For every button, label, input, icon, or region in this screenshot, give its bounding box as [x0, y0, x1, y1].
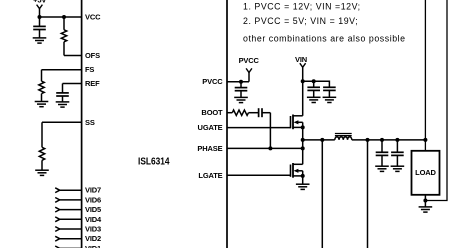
svg-text:UGATE: UGATE	[198, 123, 223, 132]
wire FS pin	[42, 69, 82, 71]
wire boot cap down to phase	[269, 113, 271, 149]
svg-text:VIN: VIN	[295, 55, 307, 64]
svg-text:PVCC: PVCC	[239, 56, 260, 65]
wire VID4	[60, 218, 82, 220]
node junction vout-load	[423, 138, 427, 142]
ground below R3	[35, 170, 49, 175]
ground below C7	[391, 166, 405, 171]
svg-text:BOOT: BOOT	[201, 108, 223, 117]
node junction VIN-C4	[312, 79, 316, 83]
transistor Q1 upper MOSFET	[291, 115, 303, 130]
capacitor C4	[307, 87, 320, 90]
svg-text:VID3: VID3	[85, 225, 101, 234]
wire SS pin	[42, 121, 82, 123]
svg-text:PHASE: PHASE	[197, 144, 222, 153]
wire output rail	[352, 139, 426, 141]
svg-text:VID7: VID7	[85, 186, 101, 195]
capacitor C3 lower lead	[240, 91, 242, 98]
node junction phase sense	[320, 138, 324, 142]
node junction PVCC-C3	[239, 80, 243, 84]
svg-text:ISL6314: ISL6314	[138, 156, 170, 167]
wire sense line rgnd top	[425, 0, 447, 201]
svg-text:VID4: VID4	[85, 215, 102, 224]
node junction VIN-branch	[301, 79, 305, 83]
wire OFS pin	[64, 55, 82, 57]
transistor Q2 lower MOSFET	[291, 163, 303, 178]
svg-text:VCC: VCC	[85, 13, 101, 22]
ground below Q2	[296, 184, 310, 189]
capacitor C6 lead	[381, 140, 383, 152]
node junction vout-C6	[380, 138, 384, 142]
svg-text:other combinations are also po: other combinations are also possible	[243, 33, 406, 43]
wire boot C to corner	[262, 112, 270, 114]
capacitor C3	[235, 88, 248, 91]
input arrow VID7	[55, 188, 60, 193]
capacitor C7 lead	[396, 140, 398, 152]
wire VID1	[60, 247, 82, 248]
wire phase sense down	[321, 140, 323, 248]
supply PVCC arrow	[246, 68, 252, 72]
node junction phase column	[301, 146, 305, 150]
capacitor C8 boot plate2	[261, 108, 263, 117]
wire LGATE pin	[227, 174, 291, 176]
wire VIN rail	[302, 67, 304, 116]
capacitor C1	[33, 26, 46, 29]
capacitor C2 lead	[62, 84, 64, 93]
wire boot R to C	[249, 112, 259, 114]
svg-text:LGATE: LGATE	[198, 171, 222, 180]
IC U1 ISL6314 left edge	[81, 0, 83, 248]
capacitor C5 lower lead	[328, 90, 330, 97]
wire VID3	[60, 228, 82, 230]
resistor R4 boot zigzag	[232, 110, 248, 115]
load box	[412, 151, 440, 195]
ground below load	[419, 207, 433, 212]
inductor L1 core bars	[335, 134, 352, 136]
wire phase to inductor	[303, 139, 335, 141]
svg-text:VID1: VID1	[85, 244, 101, 248]
capacitor C1 lead	[39, 17, 41, 26]
wire sense line vout top	[424, 0, 426, 151]
capacitor C7	[391, 152, 404, 155]
resistor R1 zigzag	[61, 30, 66, 42]
input arrow VID2	[55, 236, 60, 241]
node junction Q1 source	[301, 125, 305, 129]
capacitor C1 lower lead	[39, 30, 41, 38]
wire VID6	[60, 199, 82, 201]
resistor R3 zigzag	[39, 147, 44, 160]
input arrow VID6	[55, 198, 60, 203]
wire vout sense down	[367, 140, 369, 248]
capacitor C2	[56, 93, 69, 96]
supply +5V arrow	[37, 5, 43, 9]
wire UGATE pin	[227, 127, 291, 129]
input arrow VID1	[55, 246, 60, 248]
wire Q2 source to ground	[302, 176, 304, 184]
ground below R2	[35, 102, 49, 107]
capacitor C5	[323, 87, 336, 90]
svg-text:VID5: VID5	[85, 205, 101, 214]
wire VID7	[60, 189, 82, 191]
resistor R2 upper lead	[41, 70, 43, 82]
capacitor C8 boot plate1	[258, 108, 260, 117]
ground below C2	[56, 102, 70, 107]
inductor L1 windings	[335, 137, 352, 140]
ground below C3	[234, 97, 248, 102]
wire load bottom	[424, 195, 426, 207]
svg-text:SS: SS	[85, 118, 95, 127]
wire BOOT pin	[227, 112, 232, 114]
svg-text:LOAD: LOAD	[415, 168, 436, 177]
capacitor C3 lead	[240, 82, 242, 88]
svg-text:VID6: VID6	[85, 195, 101, 204]
resistor R1 upper lead	[63, 17, 65, 30]
wire VID2	[60, 238, 82, 240]
capacitor C2 lower lead	[62, 96, 64, 102]
resistor R3 lower lead	[41, 160, 43, 170]
capacitor C4 lead	[313, 81, 315, 87]
IC U1 ISL6314 right edge	[226, 0, 228, 248]
node junction VCC-R1	[62, 15, 66, 19]
node junction vout-C7	[395, 138, 399, 142]
ground below C6	[375, 166, 389, 171]
node junction load-ground	[423, 199, 427, 203]
svg-text:OFS: OFS	[85, 51, 100, 60]
resistor R1 lower lead	[63, 42, 65, 56]
svg-text:REF: REF	[85, 79, 100, 88]
capacitor C4 lower lead	[313, 90, 315, 97]
svg-text:FS: FS	[85, 65, 94, 74]
wire VID5	[60, 209, 82, 211]
wire VCC rail	[40, 16, 82, 18]
supply PVCC arrow stem	[248, 73, 250, 82]
capacitor C6 lower lead	[381, 155, 383, 166]
svg-text:+5V: +5V	[33, 0, 46, 5]
node junction Q2 source	[301, 174, 305, 178]
node junction boot-phase	[268, 146, 272, 150]
svg-text:PVCC: PVCC	[202, 77, 223, 86]
node junction vout sense	[366, 138, 370, 142]
ground below C4	[307, 97, 321, 102]
ground below C1	[33, 38, 47, 43]
ground below C5	[323, 97, 337, 102]
resistor R3 upper lead	[41, 122, 43, 147]
wire VIN cap branch	[303, 81, 330, 87]
supply VIN arrow	[300, 63, 306, 67]
wire PVCC pin	[227, 81, 249, 83]
input arrow VID4	[55, 217, 60, 222]
input arrow VID5	[55, 207, 60, 212]
resistor R2 zigzag	[39, 81, 44, 93]
capacitor C6	[376, 152, 389, 155]
node junction VCC-C1	[38, 15, 42, 19]
svg-text:2. PVCC = 5V; VIN = 19V;: 2. PVCC = 5V; VIN = 19V;	[243, 16, 358, 26]
wire PHASE pin	[227, 147, 303, 149]
wire +5V arrow stem	[39, 9, 41, 17]
svg-text:VID2: VID2	[85, 234, 101, 243]
resistor R2 lower lead	[41, 94, 43, 102]
input arrow VID3	[55, 227, 60, 232]
wire Q1 source column	[302, 127, 304, 164]
node junction phase-inductor branch	[301, 138, 305, 142]
wire REF pin	[63, 83, 82, 85]
capacitor C7 lower lead	[396, 155, 398, 166]
svg-text:1. PVCC = 12V; VIN =12V;: 1. PVCC = 12V; VIN =12V;	[243, 2, 361, 12]
